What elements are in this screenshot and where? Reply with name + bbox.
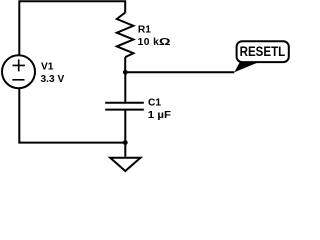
V1 minus symbol bbox=[12, 79, 24, 81]
svg-text:C1: C1 bbox=[148, 98, 161, 109]
wire node to C1 bbox=[124, 72, 126, 102]
wire bottom node to ground bbox=[124, 143, 126, 157]
svg-text:10 k: 10 k bbox=[138, 37, 160, 48]
wire C1 to bottom node bbox=[124, 111, 126, 143]
bottom node junction dot bbox=[123, 140, 128, 145]
wire node to RESETL flag bbox=[125, 71, 234, 73]
wire bottom from node to V1 bbox=[19, 88, 125, 143]
capacitor C1 top plate bbox=[105, 102, 144, 104]
svg-text:3.3 V: 3.3 V bbox=[41, 74, 65, 85]
capacitor C1 bottom plate bbox=[105, 109, 144, 111]
wire top from V1 to R1 bbox=[19, 1, 125, 55]
V1 plus symbol bbox=[12, 59, 25, 79]
net flag RESETL pointer bbox=[234, 62, 258, 73]
node A junction dot bbox=[123, 70, 128, 75]
svg-text:R1: R1 bbox=[138, 25, 151, 36]
resistor R1 bbox=[117, 13, 134, 58]
ground bbox=[110, 158, 140, 171]
voltage source V1 circle bbox=[2, 55, 35, 88]
svg-text:RESETL: RESETL bbox=[240, 43, 286, 59]
wire R1 to node bbox=[124, 57, 126, 72]
net flag RESETL box bbox=[237, 41, 289, 62]
svg-text:1 µF: 1 µF bbox=[148, 110, 171, 121]
svg-text:Ω: Ω bbox=[159, 37, 171, 48]
svg-text:V1: V1 bbox=[41, 62, 54, 73]
